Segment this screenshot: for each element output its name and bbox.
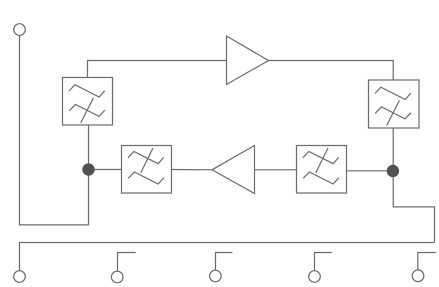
wire P1 down, right along y=224, up to node A [20, 35, 89, 225]
filter F3 (bottom-left bandpass) [122, 146, 172, 194]
wire node A to filter F1 bottom [88, 125, 90, 170]
node B (right junction dot) [387, 165, 399, 177]
port P4 (bottom terminal 3) [210, 270, 222, 282]
wire F1 top to amplifier A1 input [88, 61, 227, 78]
port P5 (bottom terminal 4) [309, 271, 321, 283]
op-amp A2 (bottom amplifier, points left) [212, 146, 255, 194]
wire bottom bus [20, 243, 435, 271]
filter F4 (bottom-right bandpass) [297, 146, 347, 194]
op-amp A1 (top amplifier, points right) [227, 36, 269, 85]
wire P5 stub [315, 253, 332, 271]
port P3 (bottom terminal 2) [111, 271, 123, 283]
wire F3 to op-amp A2 apex [172, 169, 213, 171]
filter F2 (top-right bandpass) [369, 80, 420, 128]
port P6 (bottom terminal 5) [412, 270, 424, 282]
port P2 (bottom terminal 1) [14, 271, 26, 283]
wire A2 input side to filter F4 [255, 169, 297, 171]
wire P6 stub [418, 253, 436, 271]
node A (left junction dot) [82, 163, 94, 175]
wire A1 output right, down to filter F2 top [269, 61, 394, 81]
wire F4 to node B [347, 170, 394, 172]
wire P4 stub [216, 253, 233, 271]
wire F2 bottom to node B [392, 128, 394, 171]
wire node A to filter F3 [89, 169, 122, 171]
filter F1 (top-left bandpass) [63, 78, 113, 126]
wire P3 stub [118, 253, 136, 272]
port P1 (top-left antenna terminal) [14, 24, 26, 36]
wire node B down, right, down to bottom bus [393, 171, 434, 243]
